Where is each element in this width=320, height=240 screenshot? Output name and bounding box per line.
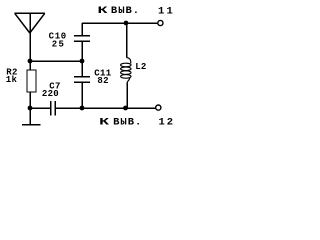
svg-text:К: К — [99, 116, 111, 128]
svg-text:ВЫВ.: ВЫВ. — [111, 5, 140, 17]
wire bottom rail — [55, 107, 156, 109]
svg-text:1k: 1k — [6, 75, 18, 85]
node junction dot at C10/C11 — [80, 59, 85, 64]
terminal to pin 12 — [156, 105, 161, 110]
capacitor C7 — [51, 101, 56, 116]
resistor R2 — [27, 61, 36, 108]
wire top rail — [82, 22, 158, 24]
wire bottom rail left of C7 — [30, 107, 51, 109]
wire antenna lead down to node A — [29, 33, 31, 61]
svg-text:ВЫВ.: ВЫВ. — [113, 116, 142, 128]
svg-text:12: 12 — [159, 116, 176, 128]
svg-text:25: 25 — [52, 40, 65, 50]
capacitor C10 — [74, 23, 90, 61]
junction dot L2 bottom — [123, 106, 128, 111]
svg-text:220: 220 — [42, 89, 59, 99]
antenna WA1 — [15, 13, 46, 33]
ground — [22, 108, 41, 125]
capacitor C11 — [74, 61, 90, 108]
junction dot bottom left — [28, 106, 33, 111]
junction dot top rail / L2 — [124, 21, 129, 26]
wire node A horizontal — [30, 60, 82, 62]
svg-text:К: К — [98, 5, 110, 17]
svg-text:L2: L2 — [135, 62, 146, 72]
node A junction dot — [28, 59, 33, 64]
svg-text:82: 82 — [97, 76, 108, 86]
svg-text:11: 11 — [158, 6, 175, 18]
terminal to pin 11 — [158, 20, 163, 25]
junction dot C11 bottom — [80, 106, 85, 111]
inductor L2 — [121, 23, 131, 108]
